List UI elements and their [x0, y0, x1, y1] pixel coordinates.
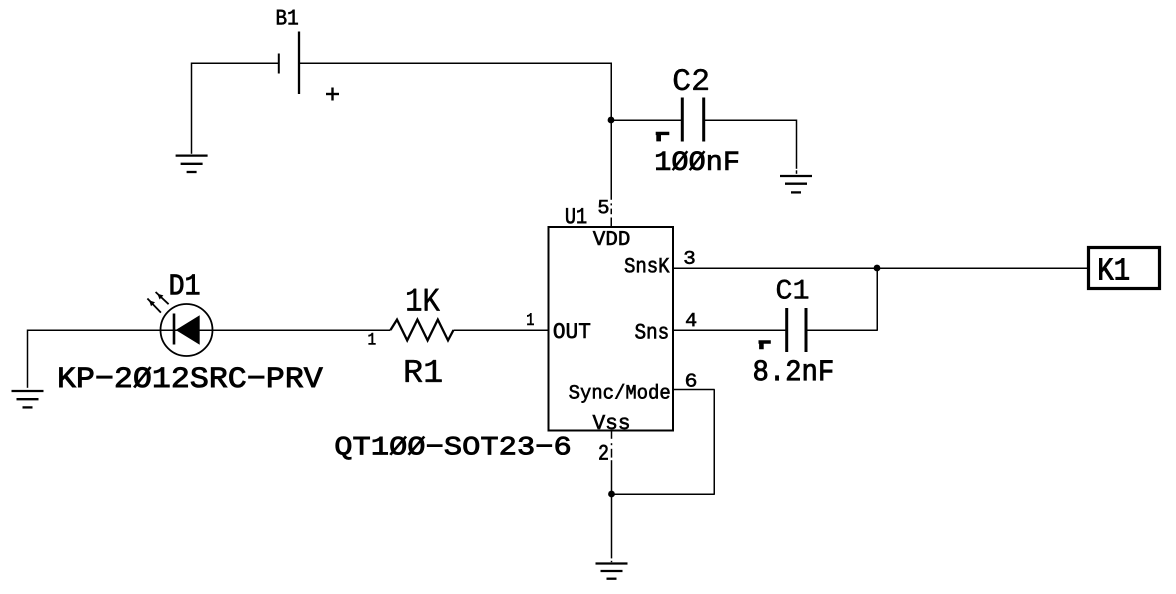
wire — [610, 63, 612, 228]
wire — [299, 62, 612, 64]
pin VDD 5 — [593, 200, 629, 245]
node SnsK junction — [874, 265, 881, 272]
wire — [673, 329, 787, 331]
wire — [454, 329, 549, 331]
ground — [176, 156, 208, 172]
wire — [612, 493, 715, 495]
connector K1 — [1089, 248, 1160, 289]
wire — [27, 329, 391, 331]
capacitor C2 — [656, 69, 738, 170]
wire — [191, 63, 193, 154]
wire — [876, 268, 878, 331]
node VDD junction — [608, 117, 615, 124]
wire — [704, 119, 797, 121]
wire — [611, 432, 613, 563]
wire — [796, 120, 798, 174]
LED D1 — [60, 275, 323, 388]
wire — [611, 119, 682, 121]
pin SnsK 3 — [625, 251, 695, 273]
node Vss junction — [608, 491, 615, 498]
pin Sns 4 — [635, 313, 696, 339]
wire — [713, 389, 715, 494]
pin OUT 1 — [527, 313, 590, 338]
op-amp U1 QT100 IC box — [336, 208, 673, 459]
battery B1 — [277, 10, 339, 101]
ground — [12, 391, 44, 407]
ground — [596, 564, 628, 579]
ground — [780, 176, 812, 192]
wire — [806, 329, 878, 331]
pin Sync/Mode 6 — [569, 374, 696, 403]
resistor R1 — [369, 289, 454, 382]
wire — [673, 389, 715, 391]
capacitor C1 — [754, 280, 832, 381]
wire — [673, 267, 1087, 269]
wire — [192, 62, 279, 64]
pin Vss 2 — [593, 415, 629, 460]
wire — [27, 330, 29, 388]
